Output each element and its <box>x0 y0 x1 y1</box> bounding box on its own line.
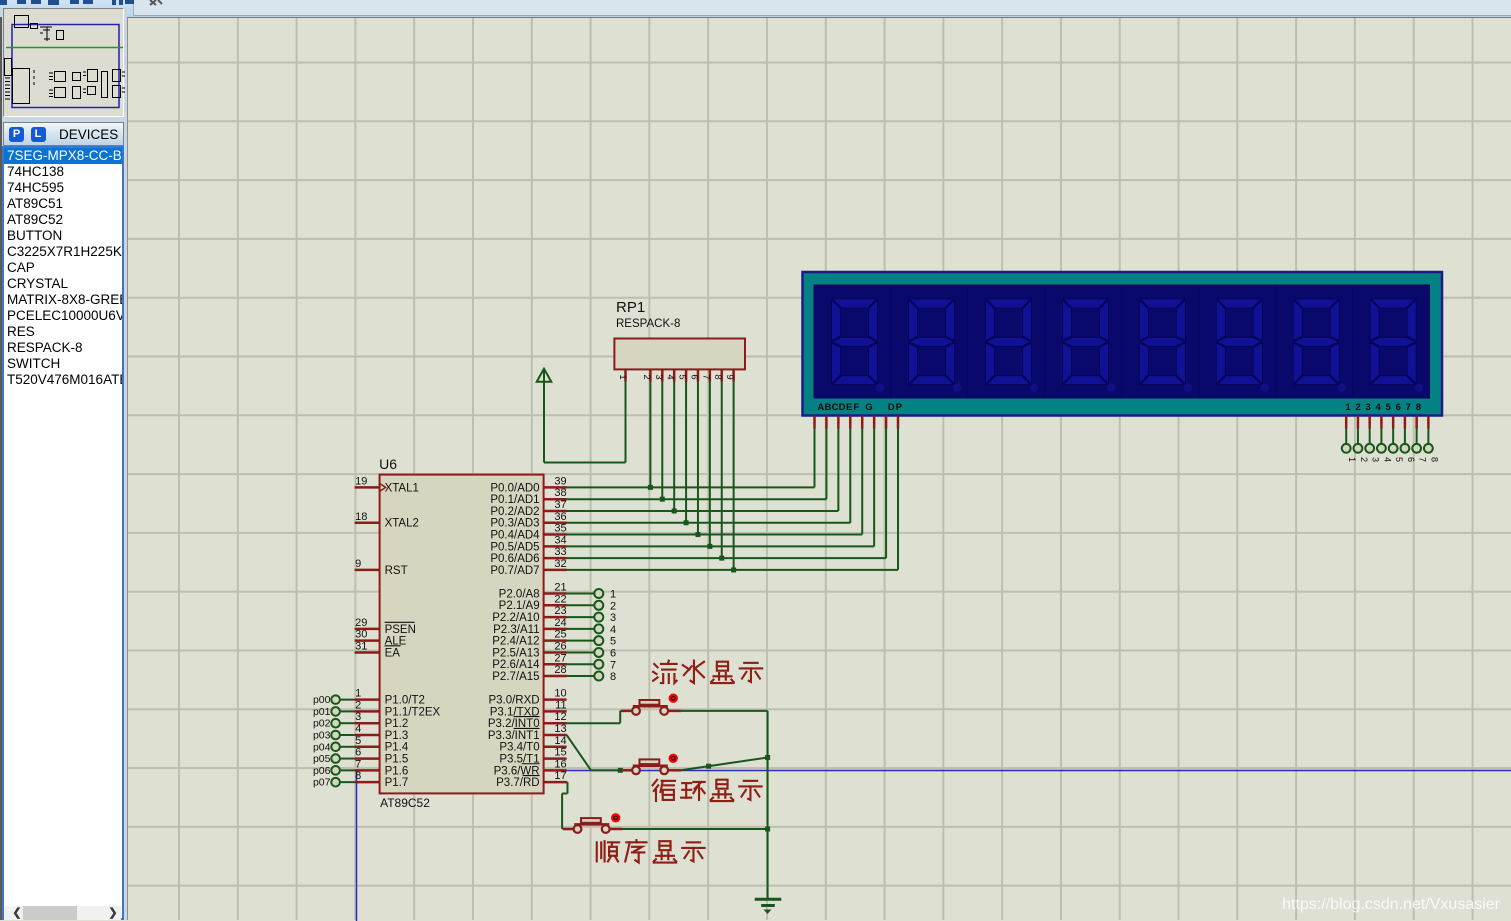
svg-text:P3.7/RD: P3.7/RD <box>496 777 539 789</box>
svg-text:35: 35 <box>554 523 566 535</box>
svg-text:21: 21 <box>554 582 566 594</box>
svg-text:p01: p01 <box>313 706 331 718</box>
svg-text:6: 6 <box>688 374 699 379</box>
svg-text:18: 18 <box>355 511 367 523</box>
svg-text:P2.6/A14: P2.6/A14 <box>492 659 540 671</box>
svg-text:17: 17 <box>554 770 566 782</box>
svg-text:6: 6 <box>610 647 616 659</box>
svg-text:P1.0/T2: P1.0/T2 <box>385 695 425 707</box>
svg-text:P2.3/A11: P2.3/A11 <box>493 624 539 636</box>
svg-text:24: 24 <box>554 617 566 629</box>
svg-text:P1.7: P1.7 <box>385 777 409 789</box>
svg-text:P1.5: P1.5 <box>385 753 409 765</box>
svg-text:1: 1 <box>610 589 616 601</box>
svg-text:8: 8 <box>1429 457 1439 462</box>
svg-text:p02: p02 <box>313 718 331 730</box>
svg-text:P2.1/A9: P2.1/A9 <box>499 600 540 612</box>
svg-text:3: 3 <box>610 612 616 624</box>
svg-text:2: 2 <box>1359 457 1369 462</box>
svg-text:P0.3/AD3: P0.3/AD3 <box>490 518 539 530</box>
svg-text:10: 10 <box>554 688 566 700</box>
svg-text:6: 6 <box>355 747 361 759</box>
svg-text:5: 5 <box>1386 402 1392 413</box>
svg-text:P1.4: P1.4 <box>385 742 409 754</box>
svg-text:4: 4 <box>355 723 361 735</box>
svg-text:P: P <box>896 402 903 413</box>
svg-text:14: 14 <box>554 735 566 747</box>
svg-text:4: 4 <box>1376 402 1382 413</box>
svg-text:3: 3 <box>1365 402 1370 413</box>
svg-text:3: 3 <box>653 374 664 379</box>
svg-text:p04: p04 <box>313 741 331 753</box>
svg-text:36: 36 <box>554 511 566 523</box>
svg-text:32: 32 <box>554 558 566 570</box>
svg-text:25: 25 <box>554 629 566 641</box>
svg-text:8: 8 <box>1416 402 1421 413</box>
svg-text:1: 1 <box>617 374 628 379</box>
svg-text:XTAL2: XTAL2 <box>385 518 419 530</box>
svg-text:2: 2 <box>641 374 652 379</box>
svg-text:P0.6/AD6: P0.6/AD6 <box>490 553 539 565</box>
svg-text:4: 4 <box>665 374 676 379</box>
svg-text:33: 33 <box>554 546 566 558</box>
svg-text:3: 3 <box>355 711 361 723</box>
svg-text:P2.2/A10: P2.2/A10 <box>492 612 539 624</box>
svg-text:D: D <box>888 402 895 413</box>
svg-text:6: 6 <box>1396 402 1401 413</box>
svg-text:p07: p07 <box>313 777 331 789</box>
svg-text:1: 1 <box>355 688 361 700</box>
svg-text:PSEN: PSEN <box>385 624 416 636</box>
svg-text:27: 27 <box>554 652 566 664</box>
svg-text:EA: EA <box>385 647 401 659</box>
svg-text:P0.2/AD2: P0.2/AD2 <box>490 506 539 518</box>
svg-text:U6: U6 <box>379 456 397 472</box>
svg-text:12: 12 <box>554 711 566 723</box>
svg-text:2: 2 <box>1355 402 1360 413</box>
svg-text:https://blog.csdn.net/Vxusasie: https://blog.csdn.net/Vxusasier <box>1282 896 1501 913</box>
svg-text:AT89C52: AT89C52 <box>380 796 430 810</box>
svg-text:22: 22 <box>554 593 566 605</box>
svg-text:7: 7 <box>610 659 616 671</box>
svg-text:5: 5 <box>677 374 688 379</box>
svg-text:8: 8 <box>355 770 361 782</box>
svg-text:G: G <box>865 402 872 413</box>
svg-text:29: 29 <box>355 617 367 629</box>
svg-text:A: A <box>817 402 824 413</box>
svg-text:23: 23 <box>554 605 566 617</box>
svg-text:P2.0/A8: P2.0/A8 <box>499 588 540 600</box>
svg-text:P0.1/AD1: P0.1/AD1 <box>490 494 539 506</box>
svg-text:XTAL1: XTAL1 <box>385 482 419 494</box>
svg-text:P2.7/A15: P2.7/A15 <box>492 671 539 683</box>
svg-text:F: F <box>853 402 859 413</box>
svg-text:P0.7/AD7: P0.7/AD7 <box>490 565 539 577</box>
svg-text:37: 37 <box>554 499 566 511</box>
svg-text:34: 34 <box>554 534 566 546</box>
svg-text:7: 7 <box>1418 457 1428 462</box>
svg-text:7: 7 <box>700 374 711 379</box>
svg-text:2: 2 <box>610 600 616 612</box>
svg-text:P3.0/RXD: P3.0/RXD <box>488 695 539 707</box>
svg-text:p05: p05 <box>313 753 331 765</box>
svg-text:P3.4/T0: P3.4/T0 <box>499 742 539 754</box>
svg-text:P1.6: P1.6 <box>385 765 409 777</box>
svg-text:P1.3: P1.3 <box>385 730 409 742</box>
svg-text:8: 8 <box>610 671 616 683</box>
svg-text:5: 5 <box>1394 457 1404 462</box>
svg-text:3: 3 <box>1371 457 1381 462</box>
svg-text:p00: p00 <box>313 694 331 706</box>
svg-text:38: 38 <box>554 487 566 499</box>
svg-text:5: 5 <box>355 735 361 747</box>
svg-text:P1.2: P1.2 <box>385 718 409 730</box>
svg-text:2: 2 <box>355 699 361 711</box>
svg-text:4: 4 <box>610 624 616 636</box>
svg-text:p03: p03 <box>313 729 331 741</box>
svg-text:15: 15 <box>554 747 566 759</box>
svg-text:8: 8 <box>712 374 723 379</box>
svg-text:13: 13 <box>554 723 566 735</box>
svg-text:E: E <box>846 402 852 413</box>
svg-text:7: 7 <box>1406 402 1411 413</box>
svg-text:C: C <box>832 402 839 413</box>
svg-text:RST: RST <box>385 565 408 577</box>
svg-text:P2.4/A12: P2.4/A12 <box>492 636 539 648</box>
svg-text:11: 11 <box>555 699 566 711</box>
svg-text:19: 19 <box>355 475 367 487</box>
svg-text:9: 9 <box>355 558 361 570</box>
svg-text:6: 6 <box>1406 457 1416 462</box>
svg-text:P0.0/AD0: P0.0/AD0 <box>490 482 539 494</box>
svg-text:P1.1/T2EX: P1.1/T2EX <box>385 706 441 718</box>
svg-text:4: 4 <box>1382 457 1392 462</box>
svg-text:28: 28 <box>554 664 566 676</box>
svg-text:RESPACK-8: RESPACK-8 <box>616 318 680 330</box>
svg-text:P0.5/AD5: P0.5/AD5 <box>490 541 539 553</box>
svg-text:30: 30 <box>355 629 367 641</box>
svg-text:1: 1 <box>1347 457 1357 462</box>
svg-text:P3.3/INT1: P3.3/INT1 <box>488 730 540 742</box>
svg-text:P2.5/A13: P2.5/A13 <box>492 647 539 659</box>
svg-text:D: D <box>839 402 846 413</box>
svg-text:7: 7 <box>355 758 361 770</box>
svg-text:p06: p06 <box>313 765 331 777</box>
svg-text:16: 16 <box>554 758 566 770</box>
svg-text:39: 39 <box>554 475 566 487</box>
svg-text:9: 9 <box>724 374 735 379</box>
svg-text:P0.4/AD4: P0.4/AD4 <box>490 529 540 541</box>
svg-text:5: 5 <box>610 636 616 648</box>
svg-text:1: 1 <box>1345 402 1351 413</box>
svg-text:31: 31 <box>355 640 367 652</box>
svg-text:26: 26 <box>554 640 566 652</box>
svg-text:RP1: RP1 <box>616 299 645 316</box>
svg-text:B: B <box>824 402 831 413</box>
